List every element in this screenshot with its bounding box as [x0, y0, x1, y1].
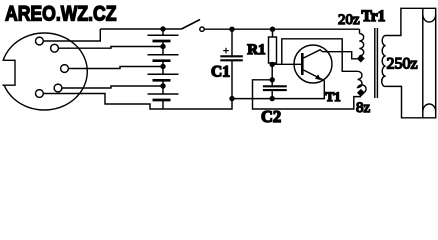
svg-text:R1: R1 — [247, 42, 265, 58]
node R1-base junction — [270, 62, 275, 67]
wire emitter ground rail — [232, 81, 324, 99]
output tube divider — [422, 8, 424, 118]
wire secondary to output tube — [386, 8, 436, 118]
transformer Tr1 winding 8z — [358, 71, 367, 93]
output tube top cap — [423, 15, 436, 23]
wire pin5 to battery bottom — [44, 94, 163, 110]
wire R1 bottom lead — [271, 63, 273, 85]
output tube bottom cap — [423, 104, 436, 112]
transformer Tr1 8z polarity dot — [357, 89, 365, 97]
capacitor C1 plus sign — [223, 48, 229, 54]
switch S1 blade — [182, 20, 201, 30]
wire pin4 to battery tap4 — [62, 86, 163, 88]
wire C2 bottom lead — [271, 90, 273, 99]
node C1 bottom junction — [229, 96, 234, 101]
connector J1 DIN body — [0, 33, 87, 110]
wire top rail right — [204, 28, 359, 30]
wire C1 bottom lead — [231, 60, 233, 98]
connector pin 5 — [36, 90, 44, 98]
svg-text:C1: C1 — [211, 64, 230, 81]
node switch-C1 junction — [229, 27, 234, 32]
resistor R1 — [269, 37, 277, 63]
battery B1 cell1 — [148, 26, 179, 47]
transistor T1 emitter arrow — [315, 74, 321, 80]
wire pin2 to battery tap2 — [58, 47, 163, 49]
wire pin3 to battery tap3 — [69, 67, 163, 69]
svg-text:C2: C2 — [261, 107, 281, 126]
battery B1 cell2 — [148, 44, 179, 67]
transformer Tr1 core — [375, 28, 378, 98]
node C2 top junction — [270, 77, 275, 82]
connector pin 1 — [36, 37, 44, 45]
transistor T1 collector — [304, 50, 359, 59]
wire pin1 to battery top — [44, 29, 101, 41]
wire R1 top lead — [272, 29, 274, 37]
svg-text:250z: 250z — [387, 56, 418, 73]
transformer Tr1 20z polarity dot — [357, 55, 365, 63]
connector pin 3 — [61, 65, 69, 73]
transformer Tr1 winding 250z — [382, 36, 386, 87]
transistor T1 body — [294, 45, 332, 83]
svg-text:20z: 20z — [338, 12, 360, 28]
wire C2 tap to base rail — [253, 80, 362, 109]
transistor T1 emitter — [304, 70, 325, 81]
capacitor C2 — [263, 86, 287, 90]
connector pin 4 — [54, 84, 62, 92]
wire base feedback loop — [282, 39, 358, 72]
svg-text:Tr1: Tr1 — [362, 8, 386, 25]
battery B1 cell3 — [148, 64, 179, 86]
transistor T1 base bar — [301, 53, 304, 75]
transformer Tr1 winding 20z — [359, 34, 363, 57]
node C2 bottom junction — [270, 96, 275, 101]
node R1 top junction — [270, 27, 275, 32]
battery B1 cell4 — [148, 83, 179, 109]
svg-text:8z: 8z — [356, 100, 371, 116]
svg-text:AREO.WZ.CZ: AREO.WZ.CZ — [5, 1, 117, 25]
wire battery return — [163, 99, 232, 109]
capacitor C1 — [220, 56, 243, 60]
wire C1 top lead — [231, 29, 233, 55]
wire base to R1 — [272, 63, 301, 65]
svg-text:T1: T1 — [326, 89, 341, 104]
wire top rail left — [100, 28, 181, 30]
wire rail to 20z winding — [359, 29, 361, 33]
switch S1 contact — [200, 27, 204, 31]
connector pin 2 — [51, 44, 59, 52]
